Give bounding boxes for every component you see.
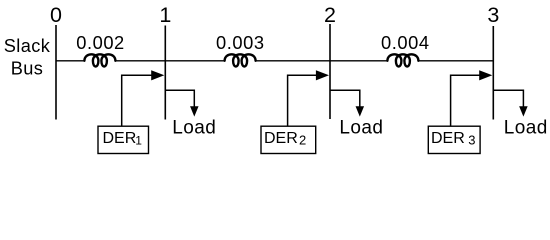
bus 2 [329, 24, 331, 119]
DER1 arrowhead [151, 70, 164, 80]
load 1 tap wire [165, 90, 194, 108]
wire bus0 to L1 [56, 60, 85, 62]
DER2 box [261, 126, 316, 153]
load 3 arrowhead [519, 106, 528, 116]
wire L2 to bus2 [256, 60, 330, 62]
bus 0 (slack) [55, 25, 57, 120]
svg-text:0: 0 [50, 3, 62, 27]
inductor L2 [225, 54, 256, 66]
load 2 tap wire [330, 90, 360, 108]
DER3 injection wire [451, 75, 485, 126]
inductor L3 [387, 54, 418, 66]
svg-text:Load: Load [504, 118, 548, 139]
load 3 tap wire [493, 90, 523, 108]
DER2 injection wire [288, 75, 322, 126]
DER1 box [98, 126, 149, 153]
wire bus2 to L3 [330, 60, 388, 62]
wire bus1 to L2 [165, 60, 225, 62]
svg-text:Load: Load [172, 118, 216, 139]
load 1 arrowhead [190, 106, 199, 116]
wire L1 to bus1 [115, 60, 165, 62]
wire L3 to bus3 [418, 60, 493, 62]
svg-text:0.002: 0.002 [76, 32, 125, 53]
DER3 arrowhead [479, 70, 492, 80]
load 2 arrowhead [356, 106, 365, 116]
svg-text:2: 2 [324, 3, 336, 27]
DER1 injection wire [122, 75, 157, 126]
bus 1 [164, 26, 166, 120]
svg-text:3: 3 [487, 3, 499, 27]
inductor L1 [84, 54, 115, 66]
svg-text:Slack: Slack [4, 36, 51, 56]
svg-text:1: 1 [159, 3, 171, 27]
svg-text:DER2: DER2 [264, 130, 306, 148]
svg-text:0.003: 0.003 [216, 32, 265, 53]
bus 3 [492, 26, 494, 120]
DER3 box [428, 126, 480, 153]
DER2 arrowhead [316, 70, 329, 80]
svg-text:Bus: Bus [11, 59, 44, 79]
svg-text:0.004: 0.004 [381, 32, 430, 53]
svg-text:DER3: DER3 [431, 130, 476, 148]
svg-text:Load: Load [339, 118, 383, 139]
